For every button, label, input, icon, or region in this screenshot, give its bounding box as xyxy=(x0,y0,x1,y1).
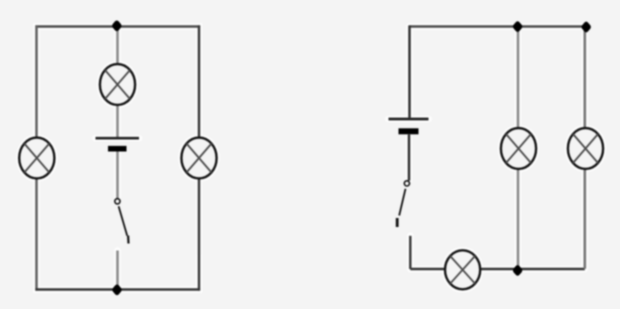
wire: left-circuit left side (through lamp L2) xyxy=(35,25,38,290)
switch S2 open blade xyxy=(399,189,405,216)
switch S2 lower contact tick xyxy=(396,218,399,227)
switch S1 open blade xyxy=(119,206,128,236)
wire: middle branch upper segment (through lamp L1) xyxy=(116,27,119,138)
wire: middle branch (through lamp L4) xyxy=(517,27,520,270)
junction node: top of middle branch xyxy=(111,19,122,32)
lamp L2 (left side) xyxy=(19,138,54,179)
wire: right-circuit top rail xyxy=(410,25,587,27)
wire: left-circuit right side (through lamp L3) xyxy=(198,25,201,290)
switch S1 pivot circle xyxy=(115,199,120,204)
wire: middle branch between battery and switch xyxy=(116,152,119,199)
wire: bottom rail (through lamp L6) xyxy=(410,268,585,271)
lamp L1 (middle branch) xyxy=(100,64,135,105)
junction node: bottom of middle branch xyxy=(111,283,122,296)
wire: right branch (through lamp L5) xyxy=(583,27,586,269)
battery B1 long positive plate xyxy=(96,137,140,140)
wire: battery branch upper segment xyxy=(408,25,411,117)
battery B1 short thick negative plate xyxy=(108,146,127,152)
wire: left-circuit top rail xyxy=(35,25,200,27)
junction node: bottom of middle branch (right circuit) xyxy=(512,264,523,277)
battery B2 long positive plate xyxy=(389,118,429,121)
junction node: top right corner (right circuit) xyxy=(581,21,592,34)
junction node: top of middle branch (right circuit) xyxy=(512,20,523,33)
switch S2 pivot circle xyxy=(404,181,409,186)
wire: between battery B2 and switch S2 xyxy=(408,135,411,181)
battery B2 short thick negative plate xyxy=(399,128,419,134)
wire: left-circuit bottom rail xyxy=(35,288,200,291)
lamp L6 (bottom rail, right circuit) xyxy=(445,250,480,289)
switch S1 lower contact tick xyxy=(127,236,130,244)
lamp L5 (right branch, right circuit) xyxy=(568,128,603,169)
wire: middle branch lower segment below switch xyxy=(116,251,119,290)
lamp L4 (middle branch, right circuit) xyxy=(501,128,536,169)
wire: below switch S2 down to bottom rail xyxy=(409,236,412,269)
lamp L3 (right side) xyxy=(181,138,216,179)
